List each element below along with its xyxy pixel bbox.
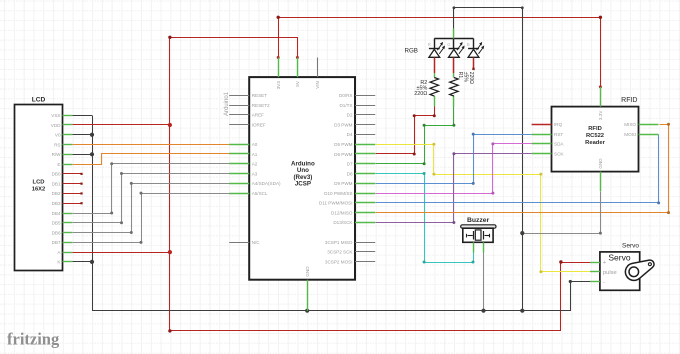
node R/W junction xyxy=(90,152,94,156)
pin servo + xyxy=(590,260,607,266)
pin LCD VSS xyxy=(51,113,72,118)
svg-text:B: B xyxy=(467,42,470,47)
svg-text:VDD: VDD xyxy=(51,123,61,128)
wire xyxy=(73,184,230,233)
svg-text:16X2: 16X2 xyxy=(32,187,46,193)
svg-text:LCD: LCD xyxy=(33,180,45,186)
pin LCD V0 xyxy=(55,133,72,138)
svg-text:R/W: R/W xyxy=(52,152,62,157)
svg-text:SDA: SDA xyxy=(554,142,564,147)
node V0 junction xyxy=(90,133,94,137)
pin Arduino D0/RX xyxy=(339,93,375,98)
pin Arduino D8 xyxy=(347,171,376,176)
pin Arduino A2 xyxy=(229,162,258,167)
svg-text:3.3V: 3.3V xyxy=(598,110,603,120)
svg-text:pulse: pulse xyxy=(603,270,617,276)
wire xyxy=(376,107,435,154)
pin Arduino AREF xyxy=(229,113,264,118)
svg-text:LCD: LCD xyxy=(32,96,46,103)
svg-text:RFID: RFID xyxy=(621,97,637,104)
servo horn icon xyxy=(625,260,654,280)
pin servo - xyxy=(590,280,605,286)
LED green xyxy=(447,42,464,57)
pin LCD DB7 xyxy=(52,240,73,245)
svg-text:IRQ: IRQ xyxy=(554,122,563,127)
svg-text:VIN: VIN xyxy=(315,81,320,89)
svg-text:D12/MISO: D12/MISO xyxy=(331,210,353,215)
pin Arduino D7 xyxy=(347,162,376,167)
pin Arduino RESET2 xyxy=(229,103,270,108)
svg-text:Buzzer: Buzzer xyxy=(467,217,490,224)
wire xyxy=(93,116,591,311)
svg-text:DB5: DB5 xyxy=(52,221,61,226)
pin RFID SDA xyxy=(532,142,565,147)
svg-text:Arduino1: Arduino1 xyxy=(224,91,230,116)
wire xyxy=(376,154,532,223)
wire xyxy=(483,253,485,311)
pin Arduino IOREF xyxy=(229,122,266,127)
pin LCD DB2 xyxy=(52,191,83,196)
svg-text:D10 PWM/SS: D10 PWM/SS xyxy=(324,191,352,196)
pin Arduino D10 PWM/SS xyxy=(324,191,375,196)
pin Arduino D13/SCK xyxy=(333,220,375,225)
svg-text:V0: V0 xyxy=(55,133,61,138)
svg-text:RST: RST xyxy=(554,132,563,137)
svg-text:DB4: DB4 xyxy=(52,211,61,216)
node VDD junction xyxy=(168,123,172,127)
wire xyxy=(376,107,454,164)
pin Arduino 3CSP2 MOSI xyxy=(325,259,375,264)
svg-text:Servo: Servo xyxy=(622,243,639,250)
svg-text:D11 PWM/MOSI: D11 PWM/MOSI xyxy=(319,201,353,206)
pin RFID SCK xyxy=(532,152,565,157)
pin Arduino D3 PWM xyxy=(334,122,375,127)
pin Arduino D4 xyxy=(347,132,376,137)
svg-text:D3 PWM: D3 PWM xyxy=(334,122,353,127)
svg-text:D6 PWM: D6 PWM xyxy=(334,152,353,157)
pin Arduino D2 xyxy=(347,113,376,118)
pin Arduino VIN xyxy=(315,58,320,89)
svg-text:D1/TX: D1/TX xyxy=(339,103,352,108)
pin Arduino D11 PWM/MOSI xyxy=(319,201,375,206)
wire xyxy=(376,125,669,213)
svg-text:RC522: RC522 xyxy=(586,133,604,139)
pin LCD DB0 xyxy=(52,172,83,177)
pin RFID IRQ (unconnected) xyxy=(532,122,563,127)
wire xyxy=(170,38,591,331)
wire xyxy=(72,154,92,156)
wire xyxy=(72,252,170,254)
svg-text:GND: GND xyxy=(305,266,310,277)
wire xyxy=(523,192,601,234)
svg-text:220Ω: 220Ω xyxy=(468,72,474,84)
svg-text:RESET: RESET xyxy=(252,93,268,98)
pin LCD A xyxy=(57,250,72,255)
pin Arduino D5 PWM xyxy=(334,142,375,147)
LCD LCD1 16X2 module xyxy=(15,96,63,270)
wire xyxy=(72,115,92,117)
node A junction xyxy=(168,250,172,254)
pin RFID GND xyxy=(598,158,603,191)
svg-text:D8: D8 xyxy=(347,171,353,176)
pin Arduino 3V3 xyxy=(276,58,281,90)
pin LCD K xyxy=(57,260,72,265)
svg-text:MOSI: MOSI xyxy=(624,132,636,137)
svg-text:GND: GND xyxy=(598,158,603,169)
pin Arduino A3 xyxy=(229,171,258,176)
node ground-bus junction xyxy=(520,309,524,313)
svg-text:VSS: VSS xyxy=(51,113,60,118)
svg-text:IOREF: IOREF xyxy=(252,122,266,127)
svg-text:3CSP2 MOSI: 3CSP2 MOSI xyxy=(325,259,353,264)
pin Arduino GND xyxy=(305,266,310,311)
svg-text:A0: A0 xyxy=(252,142,258,147)
pin LCD DB6 xyxy=(52,230,73,235)
svg-text:N/C: N/C xyxy=(252,240,261,245)
resistor R1 220 xyxy=(450,73,459,107)
wire xyxy=(376,135,659,203)
svg-text:D5 PWM: D5 PWM xyxy=(334,142,353,147)
svg-text:E: E xyxy=(57,162,60,167)
svg-text:A3: A3 xyxy=(252,171,258,176)
svg-text:A1: A1 xyxy=(252,152,258,157)
pin Arduino A1 xyxy=(229,152,258,157)
svg-text:A2: A2 xyxy=(252,162,258,167)
wire xyxy=(376,174,474,263)
wire xyxy=(434,57,436,73)
svg-text:D13/SCK: D13/SCK xyxy=(333,220,353,225)
pin LCD RS xyxy=(54,142,72,147)
pin LCD VDD xyxy=(51,123,73,128)
pin blue LED anode (unconnected) xyxy=(472,57,474,70)
svg-text:DB3: DB3 xyxy=(52,201,61,206)
svg-text:R1: R1 xyxy=(457,72,463,79)
node Arduino GND junction xyxy=(305,309,309,313)
svg-text:RFID: RFID xyxy=(588,126,602,132)
svg-text:DB6: DB6 xyxy=(52,230,61,235)
pin Arduino D6 PWM xyxy=(334,152,375,157)
svg-text:RS: RS xyxy=(54,142,60,147)
svg-text:A5/SCL: A5/SCL xyxy=(252,191,268,196)
svg-text:A4/SDA(SDA): A4/SDA(SDA) xyxy=(252,181,281,186)
svg-text:RGB: RGB xyxy=(405,48,418,55)
pin Arduino D1/TX xyxy=(339,103,375,108)
LED red xyxy=(428,42,445,57)
pin RFID 3.3V xyxy=(598,87,603,120)
pin Arduino 3CSP1 MISO xyxy=(325,240,375,245)
pin Arduino A0 xyxy=(229,142,258,147)
wire xyxy=(72,134,92,136)
svg-text:DB1: DB1 xyxy=(52,181,61,186)
wire xyxy=(376,145,591,272)
svg-text:3CSP2 SCK: 3CSP2 SCK xyxy=(327,250,353,255)
wire xyxy=(434,39,473,49)
pin LCD DB4 xyxy=(52,211,73,216)
pin Arduino N/C xyxy=(229,240,260,245)
LED blue xyxy=(467,42,484,57)
node buzzer gnd junction xyxy=(481,309,485,313)
svg-text:DB7: DB7 xyxy=(52,240,61,245)
svg-text:SCK: SCK xyxy=(554,152,564,157)
pin Arduino D12/MISO xyxy=(331,210,375,215)
wire xyxy=(72,144,229,146)
pin Arduino 5V xyxy=(295,58,300,87)
wire xyxy=(454,8,523,311)
wire xyxy=(73,164,230,214)
wire xyxy=(453,57,455,73)
wire xyxy=(376,144,532,194)
label R1 value xyxy=(457,72,474,84)
servo M1 xyxy=(600,243,640,291)
svg-text:DB2: DB2 xyxy=(52,191,61,196)
buzzer BZ1 xyxy=(461,217,496,242)
wire xyxy=(72,261,92,263)
svg-text:Servo: Servo xyxy=(608,253,630,263)
pin Arduino 3CSP2 SCK xyxy=(327,250,375,255)
pin LCD DB1 xyxy=(52,181,83,186)
node K junction xyxy=(90,260,94,264)
wire xyxy=(73,174,230,223)
wire xyxy=(279,18,601,87)
node gnd junction xyxy=(520,231,524,235)
svg-text:R: R xyxy=(428,42,431,47)
wire xyxy=(376,135,532,184)
pin LCD DB5 xyxy=(52,221,73,226)
svg-text:G: G xyxy=(447,42,450,47)
svg-text:220Ω: 220Ω xyxy=(414,91,427,97)
pin RFID MISO xyxy=(624,122,658,127)
svg-text:DB0: DB0 xyxy=(52,172,61,177)
svg-text:MISO: MISO xyxy=(624,122,636,127)
pin Arduino A4/SDA(SDA) xyxy=(229,181,281,186)
pin buzzer - xyxy=(483,242,485,252)
svg-text:JCSP: JCSP xyxy=(295,180,311,187)
svg-text:-: - xyxy=(603,280,605,286)
label R2 value xyxy=(414,80,427,97)
Arduino U1 Uno (Rev3) xyxy=(249,77,355,280)
resistor R2 220 xyxy=(430,73,439,107)
svg-text:D0/RX: D0/RX xyxy=(339,93,353,98)
wire xyxy=(453,29,455,39)
svg-text:RESET2: RESET2 xyxy=(252,103,270,108)
wire xyxy=(73,154,230,165)
svg-text:D7: D7 xyxy=(347,162,353,167)
pin LCD R/W xyxy=(52,152,73,157)
svg-text:5V: 5V xyxy=(295,80,300,87)
pin Arduino RESET xyxy=(229,93,267,98)
svg-text:Reader: Reader xyxy=(585,140,605,146)
svg-text:fritzing: fritzing xyxy=(7,330,60,349)
pin servo pulse xyxy=(590,270,617,276)
svg-text:AREF: AREF xyxy=(252,113,264,118)
pin LCD DB3 xyxy=(52,201,83,206)
pin RFID MOSI xyxy=(624,132,658,137)
pin Arduino A5/SCL xyxy=(229,191,268,196)
svg-text:D2: D2 xyxy=(347,113,353,118)
pin RFID RST xyxy=(532,132,564,137)
svg-text:D9 PWM: D9 PWM xyxy=(334,181,353,186)
wire xyxy=(73,194,230,243)
pin buzzer + xyxy=(473,242,475,252)
RFID RC522 reader xyxy=(552,97,639,172)
wire xyxy=(72,124,170,126)
pin Arduino D9 PWM xyxy=(334,181,375,186)
svg-text:3CSP1 MISO: 3CSP1 MISO xyxy=(325,240,353,245)
svg-text:D4: D4 xyxy=(347,132,353,137)
pin LCD E xyxy=(57,162,72,167)
svg-text:±5%: ±5% xyxy=(462,72,468,83)
svg-text:3V3: 3V3 xyxy=(276,81,281,90)
